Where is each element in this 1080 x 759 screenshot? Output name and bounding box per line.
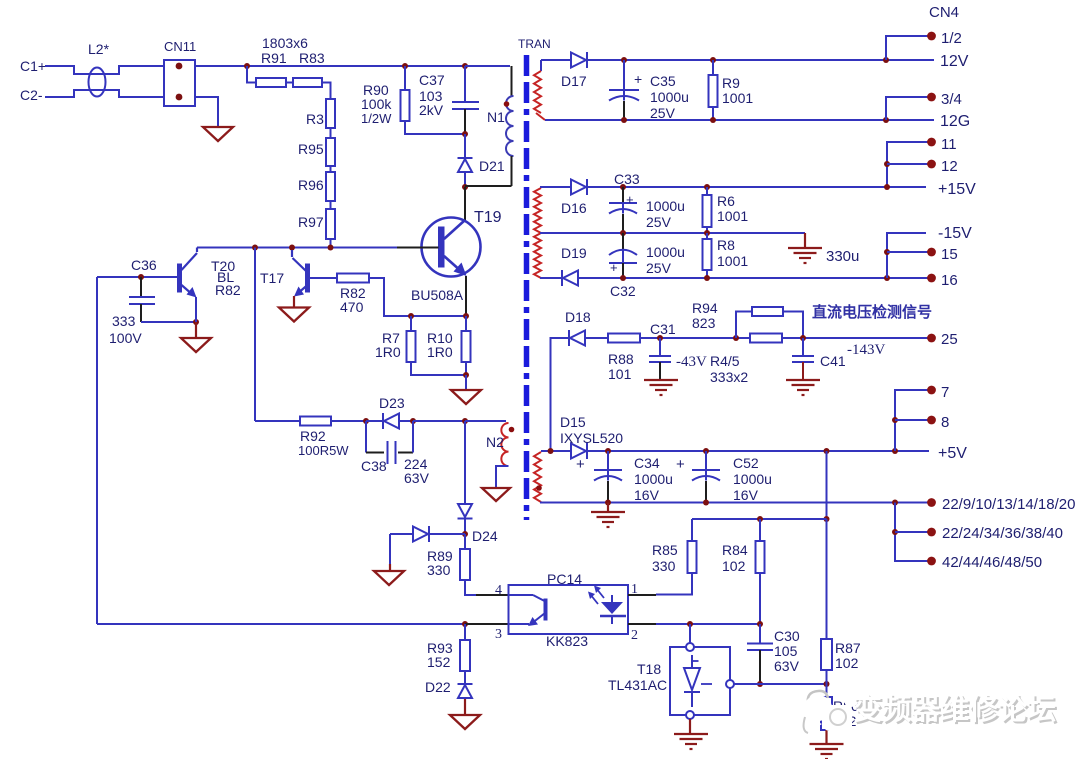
phase dot 5V winding bbox=[536, 485, 542, 491]
svg-text:22/9/10/13/14/18/20: 22/9/10/13/14/18/20 bbox=[942, 496, 1075, 513]
connector CN11 bbox=[164, 60, 195, 106]
svg-text:16V: 16V bbox=[634, 487, 660, 503]
regulator T18 TL431 box bbox=[689, 624, 691, 643]
wire center tap rail bbox=[540, 232, 805, 234]
wire +5V to feedback vertical bbox=[826, 451, 828, 519]
svg-text:12: 12 bbox=[941, 158, 958, 175]
wire R85 top stub bbox=[691, 519, 693, 541]
winding secondary 15V upper bbox=[534, 188, 541, 233]
svg-text:T17: T17 bbox=[260, 270, 284, 286]
svg-text:D21: D21 bbox=[479, 158, 505, 174]
svg-text:R87: R87 bbox=[835, 640, 861, 656]
capacitor C34 bbox=[607, 451, 609, 470]
wire to R91 bbox=[247, 66, 256, 83]
wire R84 bottom bbox=[759, 573, 761, 624]
pin 16 bbox=[927, 274, 936, 283]
ground at C31 bbox=[644, 379, 678, 381]
pin 25 bbox=[927, 334, 936, 343]
svg-text:8: 8 bbox=[941, 414, 949, 431]
resistor R96 bbox=[326, 172, 335, 201]
svg-text:R3: R3 bbox=[306, 111, 324, 127]
pin 22/24/34/36/38/40 bbox=[927, 528, 936, 537]
resistor R93 bbox=[460, 640, 470, 671]
wire R93 to D22 bbox=[464, 671, 466, 684]
capacitor C31 bbox=[659, 338, 661, 356]
wire -15V branch vertical bbox=[887, 233, 926, 278]
svg-text:+: + bbox=[576, 456, 585, 473]
wire R96-R97 bbox=[330, 201, 332, 209]
svg-text:100k: 100k bbox=[361, 96, 392, 112]
capacitor C33 bbox=[622, 187, 624, 203]
junction C37/R90/D21 node bbox=[462, 131, 468, 137]
junction R6/R8 mid bbox=[704, 230, 710, 236]
resistor R6 bbox=[703, 195, 712, 227]
junction C52 bottom bbox=[703, 500, 709, 506]
wire R87 bottom stub bbox=[826, 670, 828, 684]
wire C37 bottom stub bbox=[464, 109, 466, 134]
junction pin15 branch bbox=[884, 249, 890, 255]
wire R92 to D23 bbox=[331, 420, 366, 422]
wire +15V rail bbox=[540, 186, 926, 188]
ground at N2 bbox=[482, 488, 510, 501]
diode D21 bbox=[458, 157, 473, 159]
junction feedback row bbox=[824, 516, 830, 522]
wire left loop vertical bbox=[96, 277, 98, 624]
optocoupler PC14 box bbox=[509, 585, 629, 634]
diode D18 bbox=[570, 331, 585, 346]
junction C30 bottom node bbox=[757, 681, 763, 687]
junction C33 top bbox=[620, 184, 626, 190]
capacitor C41 bbox=[802, 338, 804, 356]
wire pin8 stub bbox=[895, 419, 931, 421]
junction C30 top node bbox=[757, 621, 763, 627]
wire R91-R83 bbox=[286, 82, 293, 84]
svg-text:25V: 25V bbox=[646, 214, 672, 230]
wire R95-R96 bbox=[330, 166, 332, 172]
wire pin 3/4 branch bbox=[886, 97, 931, 120]
wire lower gnd pins branch bbox=[895, 503, 931, 562]
winding secondary 15V lower bbox=[534, 233, 541, 278]
winding N1 primary bbox=[506, 96, 514, 156]
svg-text:+5V: +5V bbox=[938, 445, 967, 462]
wire T19 emitter lead bbox=[465, 276, 467, 316]
pin 42/44/46/48/50 bbox=[927, 557, 936, 566]
wire N2 top lead bbox=[465, 420, 506, 422]
wire C2- lead bbox=[45, 90, 164, 97]
resistor R10 bbox=[462, 331, 471, 362]
junction R94 left bbox=[733, 335, 739, 341]
diode D24 bbox=[458, 504, 472, 517]
junction D23 right bbox=[410, 418, 416, 424]
LED light arrows bbox=[590, 594, 598, 604]
svg-text:L2*: L2* bbox=[88, 41, 110, 57]
svg-text:330u: 330u bbox=[826, 248, 859, 265]
resistor R90 bbox=[401, 90, 410, 121]
junction T18 top node bbox=[687, 621, 693, 627]
svg-text:330: 330 bbox=[652, 558, 676, 574]
wire R93 top bbox=[464, 624, 466, 640]
svg-text:R82: R82 bbox=[215, 282, 241, 298]
wire R89 to PC14 pin4 bbox=[465, 580, 476, 595]
svg-text:TRAN: TRAN bbox=[518, 37, 551, 51]
svg-text:7: 7 bbox=[941, 384, 949, 401]
inductor L2 common-mode choke bbox=[89, 68, 106, 97]
wire R6 top stub bbox=[706, 187, 708, 195]
phototransistor inside PC14 bbox=[509, 594, 534, 596]
ground 330u bbox=[788, 247, 822, 249]
svg-text:16V: 16V bbox=[733, 487, 759, 503]
junction R7 top bbox=[408, 313, 414, 319]
svg-text:823: 823 bbox=[692, 315, 716, 331]
diode D22 bbox=[458, 683, 473, 685]
junction R9 bottom bbox=[710, 117, 716, 123]
svg-text:1/2W: 1/2W bbox=[361, 111, 392, 126]
wire base bus bbox=[197, 247, 397, 249]
svg-text:R91: R91 bbox=[261, 50, 287, 66]
transistor T17 bbox=[291, 250, 293, 257]
svg-text:152: 152 bbox=[427, 654, 451, 670]
svg-text:-43V: -43V bbox=[676, 354, 707, 370]
svg-text:3: 3 bbox=[495, 627, 502, 642]
svg-text:C2-: C2- bbox=[20, 87, 43, 103]
svg-text:C35: C35 bbox=[650, 73, 676, 89]
wire pin2 row bbox=[656, 623, 760, 625]
svg-text:1001: 1001 bbox=[717, 208, 748, 224]
resistor R92 bbox=[300, 417, 331, 426]
svg-text:T18: T18 bbox=[637, 661, 661, 677]
capacitor C38 parallel loop bbox=[365, 421, 367, 453]
junction R6 top bbox=[704, 184, 710, 190]
wire pin15 stub bbox=[887, 251, 931, 253]
svg-text:1: 1 bbox=[631, 582, 638, 597]
pin 15 bbox=[927, 248, 936, 257]
svg-text:D17: D17 bbox=[561, 73, 587, 89]
svg-text:1000u: 1000u bbox=[634, 471, 673, 487]
svg-text:R8: R8 bbox=[717, 237, 735, 253]
ground at C41 bbox=[786, 379, 820, 381]
svg-text:100V: 100V bbox=[109, 330, 142, 346]
resistor R9 bbox=[709, 75, 718, 107]
svg-text:C33: C33 bbox=[614, 171, 640, 187]
svg-text:+: + bbox=[626, 192, 634, 207]
junction pin3 node bbox=[462, 621, 468, 627]
resistor R4/5 bbox=[750, 334, 782, 343]
resistor R84 bbox=[756, 541, 765, 573]
wire D23 to N2 node bbox=[413, 420, 465, 422]
svg-text:1000u: 1000u bbox=[646, 198, 685, 214]
svg-text:100R5W: 100R5W bbox=[298, 443, 349, 458]
svg-text:105: 105 bbox=[774, 643, 798, 659]
wire C37 top stub bbox=[464, 66, 466, 102]
wire detect row bbox=[569, 337, 931, 339]
wire R9 top bbox=[712, 60, 714, 75]
svg-text:R88: R88 bbox=[608, 351, 634, 367]
transistor T19 bbox=[422, 218, 481, 277]
wire R10 top stub bbox=[465, 316, 467, 331]
junction 12G branch bbox=[883, 117, 889, 123]
diode D23 bbox=[384, 414, 399, 429]
wire R87 vertical bbox=[826, 519, 828, 639]
winding secondary 12V bbox=[540, 60, 542, 71]
junction R10 bottom bbox=[463, 372, 469, 378]
svg-text:+15V: +15V bbox=[938, 181, 976, 198]
svg-text:25V: 25V bbox=[650, 105, 676, 121]
junction pin 22/24 branch bbox=[892, 529, 898, 535]
svg-text:12G: 12G bbox=[940, 113, 970, 130]
wire pin2 stub bbox=[628, 623, 656, 625]
transformer core bbox=[524, 55, 530, 520]
ground at T18 bbox=[674, 733, 708, 735]
phase dot N2 bbox=[509, 427, 515, 433]
ground at 5V rail bbox=[607, 503, 609, 513]
svg-text:1001: 1001 bbox=[722, 90, 753, 106]
junction R84 top bbox=[757, 516, 763, 522]
svg-text:1000u: 1000u bbox=[646, 244, 685, 260]
capacitor C37 bbox=[452, 101, 479, 103]
svg-text:+: + bbox=[610, 260, 618, 275]
wire R90 top bbox=[404, 66, 406, 90]
svg-text:470: 470 bbox=[340, 299, 364, 315]
junction bus R97 bbox=[328, 245, 334, 251]
wire 5V ground rail bbox=[540, 502, 931, 504]
wire R97 to base bus bbox=[330, 239, 332, 248]
junction C37 top bbox=[462, 63, 468, 69]
svg-text:CN11: CN11 bbox=[164, 39, 196, 54]
wire R83 to chain bbox=[322, 83, 331, 100]
junction R10 top / T19 emitter bbox=[463, 313, 469, 319]
svg-text:3/4: 3/4 bbox=[941, 91, 962, 108]
capacitor C52 bbox=[705, 451, 707, 470]
resistor R82 bbox=[337, 274, 369, 283]
wire R89 top bbox=[464, 534, 466, 549]
svg-text:D18: D18 bbox=[565, 309, 591, 325]
svg-text:330: 330 bbox=[427, 562, 451, 578]
svg-text:16: 16 bbox=[941, 272, 958, 289]
junction D24 node bbox=[462, 531, 468, 537]
svg-text:C37: C37 bbox=[419, 72, 445, 88]
svg-text:C41: C41 bbox=[820, 353, 846, 369]
diode D16 bbox=[571, 180, 586, 195]
capacitor C35 bbox=[623, 60, 625, 90]
wire 12G rail bbox=[545, 119, 934, 121]
junction C36 top bbox=[138, 274, 144, 280]
junction C32 bottom bbox=[620, 275, 626, 281]
svg-text:IXYSL520: IXYSL520 bbox=[560, 430, 623, 446]
ground at CN11 bbox=[203, 127, 233, 141]
wire pins 7/8 branch bbox=[895, 390, 931, 451]
svg-text:42/44/46/48/50: 42/44/46/48/50 bbox=[942, 554, 1042, 571]
svg-text:变频器维修论坛: 变频器维修论坛 bbox=[853, 692, 1056, 726]
svg-text:-143V: -143V bbox=[847, 342, 885, 358]
wire T19 collector bbox=[464, 187, 466, 221]
wire to ground bbox=[465, 375, 467, 390]
svg-text:4: 4 bbox=[495, 583, 502, 598]
ground at R86 bbox=[810, 743, 844, 745]
svg-text:R85: R85 bbox=[652, 542, 678, 558]
svg-text:15: 15 bbox=[941, 246, 958, 263]
resistor R7 bbox=[407, 331, 416, 362]
junction C35 top bbox=[621, 57, 627, 63]
wire feedback row bbox=[692, 518, 827, 520]
svg-text:C31: C31 bbox=[650, 321, 676, 337]
svg-text:R84: R84 bbox=[722, 542, 748, 558]
capacitor C30 bbox=[759, 624, 761, 644]
svg-text:D23: D23 bbox=[379, 395, 405, 411]
junction +5V vertical branch bbox=[824, 448, 830, 454]
svg-text:C52: C52 bbox=[733, 455, 759, 471]
wire D24 to junction bbox=[464, 519, 466, 534]
wire to R92 bbox=[255, 420, 300, 422]
wire D18 branch bbox=[551, 338, 570, 450]
junction R87 bottom node bbox=[824, 681, 830, 687]
resistor R85 bbox=[688, 541, 697, 573]
diode D19 bbox=[563, 271, 578, 286]
junction R8 bottom bbox=[704, 275, 710, 281]
svg-text:直流电压检测信号: 直流电压检测信号 bbox=[812, 303, 932, 321]
watermark logo bbox=[803, 691, 858, 735]
svg-text:-15V: -15V bbox=[938, 225, 972, 242]
transistor T20 bbox=[178, 264, 182, 292]
wire T18 ref row bbox=[734, 683, 827, 685]
pin 11 bbox=[927, 138, 936, 147]
winding N2 bbox=[501, 423, 508, 466]
ground at T20 emitter bbox=[195, 322, 197, 338]
junction top-left bbox=[244, 63, 250, 69]
svg-text:63V: 63V bbox=[774, 658, 800, 674]
svg-text:KK823: KK823 bbox=[546, 633, 588, 649]
wire C1+ lead bbox=[45, 66, 164, 74]
wire main HV rail bbox=[195, 65, 510, 67]
svg-text:1001: 1001 bbox=[717, 253, 748, 269]
phase dot N1 bbox=[504, 101, 510, 107]
junction C33/C32 mid bbox=[620, 230, 626, 236]
diode D17 bbox=[571, 53, 586, 68]
junction +5V pins branch bbox=[892, 448, 898, 454]
svg-text:25: 25 bbox=[941, 331, 958, 348]
wire pin 1/2 branch bbox=[886, 36, 931, 60]
LED inside PC14 bbox=[601, 602, 623, 614]
svg-text:D24: D24 bbox=[472, 528, 498, 544]
junction pin12 branch bbox=[884, 161, 890, 167]
svg-text:1000u: 1000u bbox=[650, 89, 689, 105]
wire base row bbox=[97, 276, 177, 278]
wire T17 emitter to ground bbox=[293, 296, 295, 308]
resistor R88 bbox=[608, 334, 640, 343]
resistor R95 bbox=[326, 138, 335, 166]
resistor R83 bbox=[293, 78, 322, 87]
resistor R91 bbox=[256, 78, 286, 87]
diode D15 bbox=[571, 444, 586, 459]
junction C52 top bbox=[703, 448, 709, 454]
junction R90 top bbox=[402, 63, 408, 69]
svg-text:C30: C30 bbox=[774, 628, 800, 644]
svg-text:C36: C36 bbox=[131, 257, 157, 273]
svg-text:R97: R97 bbox=[298, 214, 324, 230]
junction bus x255 bbox=[252, 245, 258, 251]
wire N1 top lead bbox=[465, 65, 510, 67]
junction +15V rail branch bbox=[884, 184, 890, 190]
wire R85 to pin1 bbox=[656, 573, 692, 595]
wire pin 22/24 stub bbox=[895, 531, 931, 533]
junction C31 top bbox=[657, 335, 663, 341]
junction R9 top bbox=[710, 57, 716, 63]
junction -15V branch bbox=[884, 275, 890, 281]
svg-text:102: 102 bbox=[722, 558, 746, 574]
svg-text:25V: 25V bbox=[646, 260, 672, 276]
junction pin8 bbox=[892, 417, 898, 423]
junction 12V branch bbox=[883, 57, 889, 63]
junction D23 left bbox=[363, 418, 369, 424]
svg-text:TL431AC: TL431AC bbox=[608, 677, 667, 693]
winding secondary 5V bbox=[534, 452, 541, 502]
ground at clamp diode bbox=[374, 571, 404, 585]
capacitor C36 bbox=[140, 277, 142, 297]
resistor R3 bbox=[326, 99, 335, 128]
junction N2 top node bbox=[462, 418, 468, 424]
svg-text:1R0: 1R0 bbox=[427, 344, 453, 360]
wire T18 bottom to ground bbox=[689, 719, 691, 734]
svg-text:1803x6: 1803x6 bbox=[262, 35, 308, 51]
svg-text:N2: N2 bbox=[486, 434, 504, 450]
junction D21 anode node bbox=[462, 184, 468, 190]
wire emitter resistor bottoms bbox=[411, 362, 466, 375]
svg-text:2: 2 bbox=[631, 628, 638, 643]
wire to 330u ground bbox=[804, 233, 806, 248]
svg-text:T19: T19 bbox=[474, 209, 502, 226]
diode clamp to ground bbox=[413, 527, 428, 542]
wire D21 vertical bbox=[464, 134, 466, 187]
wire pin3 row bbox=[97, 623, 465, 625]
resistor R94 parallel top bbox=[736, 312, 752, 339]
pin 3/4 bbox=[927, 93, 936, 102]
resistor R86 bbox=[826, 684, 828, 697]
svg-text:C1+: C1+ bbox=[20, 58, 46, 74]
wire clamp diode row bbox=[390, 533, 465, 535]
svg-text:11: 11 bbox=[941, 136, 957, 153]
svg-text:C34: C34 bbox=[634, 455, 660, 471]
wire 12V rail bbox=[541, 59, 934, 61]
svg-text:R92: R92 bbox=[300, 428, 326, 444]
wire R7 top stub bbox=[410, 316, 412, 331]
svg-text:+: + bbox=[634, 71, 642, 87]
wire R90 bottom to C37 node bbox=[405, 121, 465, 134]
TL431 symbol inside T18 bbox=[691, 655, 693, 668]
pin 1/2 bbox=[927, 32, 936, 41]
wire 11/12 branch bbox=[887, 142, 931, 187]
svg-text:2kV: 2kV bbox=[419, 102, 444, 118]
svg-text:102: 102 bbox=[835, 655, 859, 671]
junction C34 top bbox=[605, 448, 611, 454]
svg-text:BU508A: BU508A bbox=[411, 287, 464, 303]
svg-text:N1: N1 bbox=[487, 109, 505, 125]
wire N1 bottom lead bbox=[511, 156, 513, 186]
svg-text:PC14: PC14 bbox=[547, 571, 582, 587]
wire N2 bottom lead bbox=[496, 466, 509, 488]
ground at D22 bbox=[450, 715, 480, 729]
wire C36 bottom row bbox=[141, 321, 196, 323]
svg-text:12V: 12V bbox=[940, 53, 969, 70]
resistor R97 bbox=[326, 209, 335, 239]
svg-text:R4/5: R4/5 bbox=[710, 353, 740, 369]
svg-text:R95: R95 bbox=[298, 141, 324, 157]
wire pin1 stub bbox=[628, 594, 656, 596]
pin 7 bbox=[927, 386, 936, 395]
svg-text:R9: R9 bbox=[722, 75, 740, 91]
wire R6 bottom stub bbox=[706, 227, 708, 233]
wire bus drop x255 bbox=[254, 248, 256, 422]
junction C41 top bbox=[800, 335, 806, 341]
pin 22/9/10 ground bbox=[927, 498, 936, 507]
